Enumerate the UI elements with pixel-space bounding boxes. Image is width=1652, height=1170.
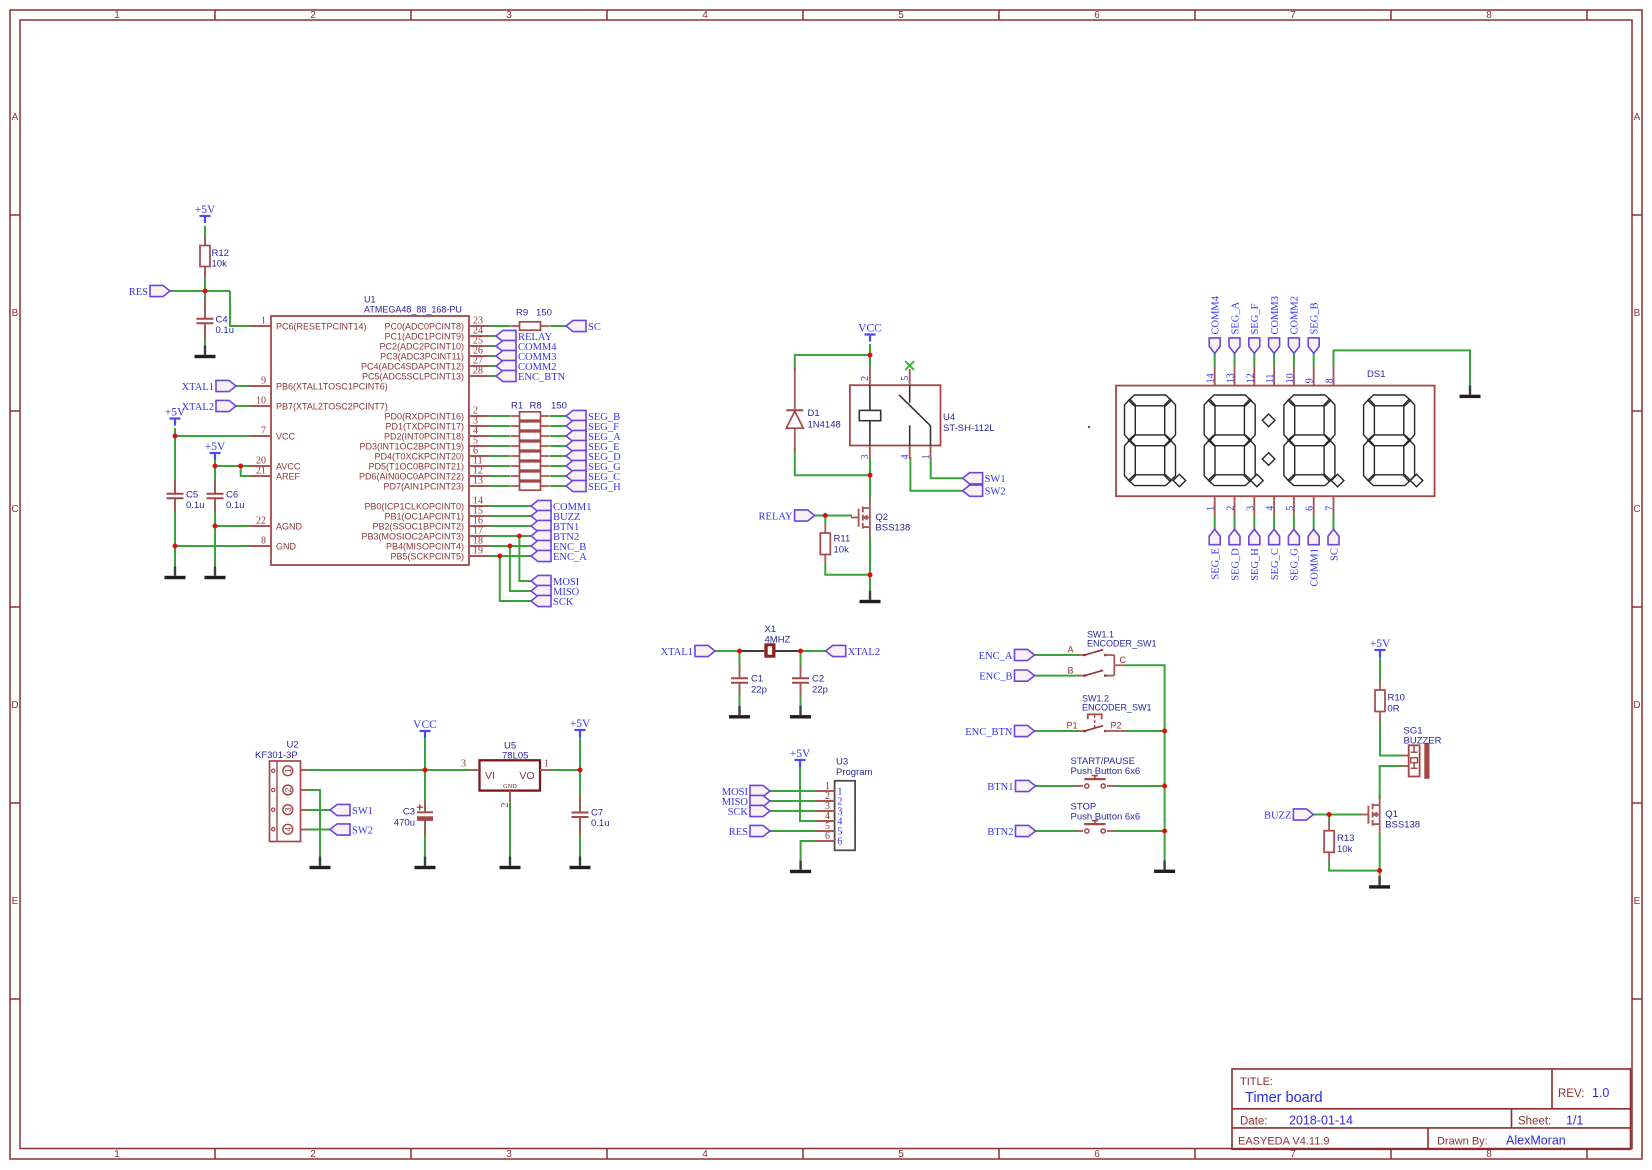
- DS1 dp1 diamond: [1173, 474, 1186, 487]
- wire relay pin 1 to SW1 flag: [931, 457, 963, 478]
- junction BUZZ gate node: [1327, 812, 1332, 817]
- svg-text:2: 2: [310, 10, 316, 21]
- wire MISO flag to U3 pin 2: [770, 800, 816, 802]
- svg-text:SC: SC: [1329, 548, 1340, 561]
- U5 pin 1 VO: [540, 769, 551, 771]
- svg-text:B: B: [1634, 308, 1641, 319]
- svg-text:13: 13: [473, 476, 483, 487]
- svg-text:AVCC: AVCC: [276, 461, 301, 471]
- wire DS1 pin 14 to COMM4 flag: [1214, 353, 1216, 366]
- net flag ENC_B: [531, 540, 551, 551]
- wire pin to R1: [490, 415, 510, 417]
- svg-text:E: E: [1634, 896, 1641, 907]
- svg-text:6: 6: [837, 837, 842, 848]
- U4 pin 3: [869, 446, 871, 460]
- svg-text:PC2(ADC2PCINT10): PC2(ADC2PCINT10): [379, 341, 464, 351]
- svg-text:SEG_B: SEG_B: [1310, 302, 1321, 334]
- svg-text:PC6(RESETPCINT14): PC6(RESETPCINT14): [276, 321, 367, 331]
- wire U3 pin 6 to ground: [801, 841, 816, 861]
- svg-text:Push Button 6x6: Push Button 6x6: [1071, 766, 1141, 777]
- net flag COMM3: [496, 350, 516, 361]
- wire node to D1 top: [795, 355, 870, 370]
- U1 pin 13 PD7(AIN1PCINT23): [469, 485, 490, 487]
- wire MOSI branch: [519, 536, 531, 581]
- DS1 pin 7: [1333, 496, 1335, 516]
- junction source rail node: [1377, 868, 1382, 873]
- net flag ENC_BTN: [496, 370, 516, 381]
- SW1.2 actuator bracket: [1087, 714, 1089, 719]
- svg-text:GND: GND: [276, 541, 297, 551]
- wire DS1 pin 12 to SEG_F flag: [1253, 353, 1255, 366]
- U3 pin 6: [815, 840, 834, 842]
- svg-text:R8: R8: [530, 401, 542, 412]
- power flag VCC (input): [420, 731, 431, 738]
- ground (C7): [570, 857, 591, 870]
- DS1 pin 8: [1333, 366, 1335, 386]
- DS1 pin 10: [1293, 366, 1295, 386]
- svg-text:RES: RES: [129, 287, 148, 298]
- svg-text:GND: GND: [503, 783, 517, 790]
- wire +5V stem (U5): [579, 737, 581, 770]
- net flag SCK (U3): [750, 805, 770, 816]
- svg-text:P2: P2: [1111, 721, 1122, 731]
- wire ENC_BTN flag to SW1.2: [1034, 730, 1079, 732]
- DS1 dp2 diamond: [1251, 474, 1264, 487]
- wire pin to R2: [490, 425, 510, 427]
- wire DS1 pin 1 to SEG_E flag: [1214, 516, 1216, 529]
- DS1 dp3 diamond: [1331, 474, 1344, 487]
- net flag BUZZ: [1293, 809, 1313, 820]
- svg-text:PD3(INT1OC2BPCINT19): PD3(INT1OC2BPCINT19): [359, 441, 464, 451]
- svg-text:R1: R1: [511, 401, 523, 412]
- net flag SC: [566, 320, 586, 331]
- net flag XTAL1 (to pin 9): [216, 380, 236, 391]
- svg-text:150: 150: [551, 401, 567, 412]
- net flag BTN2 (button): [1016, 825, 1036, 836]
- svg-text:U1: U1: [364, 295, 376, 305]
- junction +5V output node: [578, 768, 583, 773]
- wire R2 to SEG_F flag: [550, 425, 566, 427]
- U4 pin 2: [869, 366, 871, 385]
- net flag SEG_H: [566, 480, 586, 491]
- wire XTAL2 to pin 10: [236, 405, 252, 407]
- junction VCC rail: [173, 434, 178, 439]
- svg-text:+5V: +5V: [570, 718, 591, 730]
- svg-text:7: 7: [261, 426, 266, 437]
- DS1 pin 9: [1313, 366, 1315, 386]
- svg-text:BSS138: BSS138: [875, 523, 910, 534]
- svg-text:D: D: [11, 700, 18, 711]
- wire DS1 pin 10 to COMM2 flag: [1293, 353, 1295, 366]
- DS1 colon lower diamond: [1262, 453, 1275, 466]
- svg-text:A: A: [12, 112, 19, 123]
- wire ENC_A flag to SW1.1: [1034, 654, 1079, 656]
- wire +5V to R12: [204, 226, 206, 246]
- svg-text:6: 6: [1305, 506, 1316, 511]
- svg-text:SEG_D: SEG_D: [1230, 548, 1241, 581]
- capacitor C2: [800, 665, 802, 678]
- junction AGND: [213, 524, 218, 529]
- svg-text:3: 3: [1245, 506, 1256, 511]
- svg-text:BUZZER: BUZZER: [1404, 736, 1442, 747]
- svg-text:U4: U4: [943, 412, 955, 423]
- wire DS1 pin8 to ground: [1334, 350, 1471, 385]
- net flag ENC_B (encoder): [1015, 670, 1035, 681]
- U4 pin 4: [909, 446, 911, 460]
- wire pin18 to ENC_B flag: [490, 545, 531, 547]
- resistor R13: [1328, 822, 1330, 831]
- net flag RES: [150, 285, 170, 296]
- svg-text:PD6(AIN0OC0APCINT22): PD6(AIN0OC0APCINT22): [359, 471, 464, 481]
- U4 pin 5 with no-connect X: [909, 369, 911, 385]
- svg-text:ENC_A: ENC_A: [553, 552, 587, 563]
- U1 pin 17 PB3(MOSIOC2APCINT3): [469, 535, 490, 537]
- svg-text:E: E: [12, 896, 19, 907]
- diode D1 1N4148: [794, 368, 796, 411]
- svg-text:EASYEDA V4.11.9: EASYEDA V4.11.9: [1238, 1135, 1330, 1147]
- wire pin to BUZZ flag: [490, 515, 531, 517]
- transistor Q1 BSS138: [1361, 814, 1369, 816]
- svg-text:COMM3: COMM3: [1270, 296, 1281, 335]
- net flag RES (U3): [750, 825, 770, 836]
- svg-text:PD2(INT0PCINT18): PD2(INT0PCINT18): [384, 431, 464, 441]
- DS1 pin 2: [1234, 496, 1236, 516]
- wire bus ENC_BTN to BTN1: [1164, 731, 1166, 786]
- svg-text:78L05: 78L05: [502, 751, 528, 762]
- wire U2 pin2 to ground: [308, 790, 320, 857]
- wire STOP button to bus: [1113, 830, 1165, 832]
- resistor R8: [511, 485, 520, 487]
- U1 pin 24 PC1(ADC1PCINT9): [469, 335, 490, 337]
- U1 pin 1 PC6(RESETPCINT14): [250, 325, 271, 327]
- svg-text:1: 1: [261, 316, 266, 327]
- svg-text:19: 19: [473, 546, 483, 557]
- wire DS1 pin 7 to SC flag: [1333, 516, 1335, 529]
- wire rail to ground: [869, 575, 871, 591]
- svg-text:SW1: SW1: [352, 806, 373, 817]
- junction ENC_B/MISO: [507, 544, 512, 549]
- svg-text:4: 4: [1265, 506, 1276, 511]
- svg-text:U2: U2: [287, 739, 299, 750]
- svg-text:0R: 0R: [1388, 704, 1400, 715]
- svg-text:R10: R10: [1388, 693, 1405, 704]
- svg-text:1: 1: [1206, 506, 1217, 511]
- net flag ENC_BTN (encoder): [1015, 725, 1035, 736]
- svg-text:R13: R13: [1337, 833, 1354, 844]
- svg-text:7: 7: [1325, 506, 1336, 511]
- svg-text:A: A: [1067, 645, 1073, 655]
- svg-text:5: 5: [898, 10, 904, 21]
- resistor R3: [511, 435, 520, 437]
- svg-text:13: 13: [1226, 373, 1237, 383]
- svg-text:SEG_E: SEG_E: [1211, 548, 1222, 580]
- wire DS1 pin 4 to SEG_C flag: [1273, 516, 1275, 529]
- svg-text:VCC: VCC: [858, 323, 882, 335]
- relay U4 ST-SH-112L body: [850, 385, 941, 445]
- wire R9 to SC flag: [550, 325, 566, 327]
- svg-text:C6: C6: [226, 490, 238, 501]
- svg-text:SEG_C: SEG_C: [1270, 548, 1281, 580]
- transistor Q2 BSS138: [851, 517, 859, 519]
- net flag SC (DS1 bottom): [1328, 529, 1339, 545]
- svg-text:AGND: AGND: [276, 521, 303, 531]
- junction AVCC-AREF: [238, 464, 243, 469]
- svg-text:14: 14: [1206, 373, 1217, 383]
- wire U2 pin4 to SW2 flag: [308, 829, 330, 831]
- junction ENC_A/SCK: [497, 554, 502, 559]
- wire C5 rail to ground: [174, 546, 176, 567]
- svg-text:SEG_H: SEG_H: [588, 482, 621, 493]
- svg-text:Date:: Date:: [1240, 1116, 1268, 1128]
- U1 pin 11 PD5(T1OC0BPCINT21): [469, 465, 490, 467]
- svg-text:PD7(AIN1PCINT23): PD7(AIN1PCINT23): [383, 481, 464, 491]
- wire pin to COMM3 flag: [490, 355, 496, 357]
- wire SW1.1 common C to bus: [1125, 665, 1165, 731]
- net flag COMM1 (DS1 bottom): [1308, 529, 1319, 545]
- power flag +5V (U5 out): [575, 730, 586, 737]
- svg-text:C3: C3: [403, 807, 415, 818]
- svg-text:SW2: SW2: [985, 487, 1006, 498]
- svg-text:2: 2: [1226, 506, 1237, 511]
- net flag SEG_A (DS1 top): [1229, 338, 1240, 354]
- net flag RELAY (gate): [795, 510, 815, 521]
- wire C2 node to C2: [800, 651, 802, 673]
- svg-text:U3: U3: [836, 756, 848, 767]
- wire +5V to U3 pin 4: [800, 767, 816, 821]
- wire buzzer pin 2 to Q1 drain: [1380, 766, 1401, 799]
- svg-text:4: 4: [702, 1149, 708, 1160]
- DS1 pin 6: [1313, 496, 1315, 516]
- wire pin to COMM1 flag: [490, 505, 531, 507]
- svg-text:PD0(RXDPCINT16): PD0(RXDPCINT16): [384, 411, 464, 421]
- wire +5V rail down to C5: [174, 436, 176, 493]
- svg-text:D: D: [1633, 700, 1640, 711]
- wire BUZZ node to R13: [1328, 815, 1330, 824]
- wire pin19 to ENC_A flag: [490, 555, 531, 557]
- DS1 pin 14: [1214, 366, 1216, 386]
- svg-text:6: 6: [1094, 1149, 1100, 1160]
- svg-text:C2: C2: [812, 674, 824, 685]
- svg-text:3: 3: [506, 1149, 512, 1160]
- wire R3 to SEG_A flag: [550, 435, 566, 437]
- U1 pin 6 PD4(T0XCKPCINT20): [469, 455, 490, 457]
- svg-text:C4: C4: [216, 315, 228, 326]
- svg-text:2018-01-14: 2018-01-14: [1289, 1114, 1353, 1128]
- DS1 pin 3: [1253, 496, 1255, 516]
- svg-text:1: 1: [283, 768, 293, 773]
- net flag SEG_G: [566, 460, 586, 471]
- svg-text:SW2: SW2: [352, 825, 373, 836]
- net flag SEG_F: [566, 420, 586, 431]
- svg-text:1.0: 1.0: [1592, 1086, 1609, 1100]
- svg-text:D1: D1: [808, 408, 820, 419]
- wire R13 to source rail: [1329, 861, 1380, 871]
- svg-text:B: B: [1067, 665, 1073, 675]
- svg-text:PB6(XTAL1TOSC1PCINT6): PB6(XTAL1TOSC1PCINT6): [276, 381, 388, 391]
- net flag COMM3 (DS1 top): [1269, 338, 1280, 354]
- svg-text:XTAL2: XTAL2: [182, 402, 214, 413]
- resistor R5: [511, 455, 520, 457]
- ground (C1): [729, 706, 750, 719]
- ground (DS1 pin 8): [1460, 385, 1481, 398]
- wire relay pin 4 to SW2 flag: [910, 457, 962, 491]
- svg-text:PB1(OC1APCINT1): PB1(OC1APCINT1): [384, 511, 464, 521]
- svg-text:R9: R9: [516, 308, 528, 319]
- wire R4 to SEG_E flag: [550, 445, 566, 447]
- svg-text:10: 10: [1285, 373, 1296, 383]
- header U3 Program body: [835, 781, 856, 851]
- push button START/PAUSE: [1076, 785, 1083, 787]
- svg-text:C: C: [1120, 655, 1127, 665]
- U1 pin 18 PB4(MISOPCINT4): [469, 545, 490, 547]
- svg-text:22p: 22p: [812, 685, 828, 696]
- ground (C6): [205, 567, 226, 580]
- svg-text:PD4(T0XCKPCINT20): PD4(T0XCKPCINT20): [374, 451, 464, 461]
- svg-text:PD1(TXDPCINT17): PD1(TXDPCINT17): [385, 421, 464, 431]
- wire +5V rail down to C6: [214, 466, 216, 493]
- wire RELAY flag to Q2 gate: [815, 515, 852, 517]
- net flag SW1 (U2): [330, 804, 350, 815]
- svg-text:VCC: VCC: [276, 431, 296, 441]
- svg-text:1N4148: 1N4148: [808, 420, 841, 431]
- net flag SCK: [531, 595, 551, 606]
- U1 pin 21 AREF: [250, 475, 271, 477]
- junction AVCC rail: [213, 464, 218, 469]
- svg-text:COMM4: COMM4: [1211, 295, 1222, 334]
- wire +5V to AVCC pin 20: [215, 459, 252, 466]
- switch SW1.1 encoder section B: [1078, 675, 1085, 677]
- svg-text:7: 7: [1290, 1149, 1296, 1160]
- net flag SEG_B (DS1 top): [1308, 338, 1319, 354]
- wire C6 to AGND: [214, 499, 216, 526]
- svg-text:AREF: AREF: [276, 471, 301, 481]
- wire R8 to SEG_H flag: [550, 485, 566, 487]
- wire C5 to GND rail: [174, 499, 176, 546]
- svg-text:150: 150: [536, 308, 552, 319]
- svg-text:VI: VI: [485, 770, 495, 782]
- wire drain node to Q2: [869, 475, 871, 500]
- svg-text:10k: 10k: [212, 259, 228, 270]
- svg-text:0.1u: 0.1u: [591, 818, 610, 829]
- svg-text:9: 9: [261, 376, 266, 387]
- wire MOSI flag to U3 pin 1: [770, 790, 816, 792]
- power flag +5V (VCC): [170, 419, 181, 426]
- wire DS1 pin 11 to COMM3 flag: [1273, 353, 1275, 366]
- svg-text:12: 12: [1245, 373, 1256, 383]
- net flag XTAL1 (crystal): [695, 645, 715, 656]
- wire R5 to SEG_D flag: [550, 455, 566, 457]
- wire pin to BTN1 flag: [490, 525, 531, 527]
- svg-text:5: 5: [900, 376, 911, 381]
- net flag SEG_D: [566, 450, 586, 461]
- svg-text:10: 10: [256, 396, 266, 407]
- svg-text:1/1: 1/1: [1566, 1114, 1583, 1128]
- power flag +5V (buzzer): [1375, 650, 1386, 657]
- svg-text:SC: SC: [588, 322, 601, 333]
- svg-text:1: 1: [921, 454, 932, 459]
- wire C2 to ground: [800, 685, 802, 706]
- wire START/PAUSE button to bus: [1113, 785, 1165, 787]
- svg-text:TITLE:: TITLE:: [1240, 1076, 1273, 1088]
- wire XTAL1 flag to C1 node: [715, 650, 740, 652]
- svg-text:8: 8: [1486, 1149, 1492, 1160]
- wire Q1 source to rail: [1379, 833, 1381, 871]
- svg-text:DS1: DS1: [1367, 369, 1385, 380]
- svg-text:8: 8: [1325, 378, 1336, 383]
- svg-text:4: 4: [283, 827, 293, 832]
- wire BTN1 flag to button: [1036, 785, 1080, 787]
- U1 pin 5 PD3(INT1OC2BPCINT19): [469, 445, 490, 447]
- svg-text:2: 2: [860, 376, 871, 381]
- svg-text:470u: 470u: [394, 818, 415, 829]
- wire C4 to ground: [204, 324, 206, 346]
- svg-text:ENCODER_SW1: ENCODER_SW1: [1087, 638, 1157, 648]
- wire ENC_B flag to SW1.1: [1034, 675, 1079, 677]
- wire C3 to ground: [424, 821, 426, 857]
- DS1 digit 4: [1364, 395, 1415, 486]
- ground (C5): [165, 567, 186, 580]
- U1 pin 25 PC2(ADC2PCINT10): [469, 345, 490, 347]
- net flag MOSI (U3): [750, 785, 770, 796]
- capacitor C5: [174, 480, 176, 494]
- wire U5 VO to +5V node: [551, 769, 581, 771]
- net flag BTN1: [531, 520, 551, 531]
- junction XTAL2 node: [798, 649, 803, 654]
- svg-text:SCK: SCK: [553, 597, 574, 608]
- wire DS1 pin 9 to SEG_B flag: [1313, 353, 1315, 366]
- U1 pin 9 PB6(XTAL1TOSC1PCINT6): [250, 385, 271, 387]
- net flag SEG_F (DS1 top): [1249, 338, 1260, 354]
- net flag COMM2 (DS1 top): [1288, 338, 1299, 354]
- wire bus BTN2 to ground: [1164, 831, 1166, 860]
- switch SW1.2 encoder button: [1078, 730, 1085, 732]
- U1 pin 15 PB1(OC1APCINT1): [469, 515, 490, 517]
- svg-text:4: 4: [702, 10, 708, 21]
- svg-text:COMM1: COMM1: [1310, 548, 1321, 587]
- ground (U2): [310, 857, 331, 870]
- svg-text:2: 2: [310, 1149, 316, 1160]
- U4 coil: [869, 385, 871, 410]
- svg-text:2: 2: [283, 787, 293, 792]
- wire R7 to SEG_C flag: [550, 475, 566, 477]
- svg-text:PC0(ADC0PCINT8): PC0(ADC0PCINT8): [384, 321, 464, 331]
- power flag +5V (U3): [795, 760, 806, 767]
- wire R6 to SEG_G flag: [550, 465, 566, 467]
- net flag COMM4 (DS1 top): [1209, 338, 1220, 354]
- DS1 dp4 diamond: [1410, 474, 1423, 487]
- svg-text:PD5(T1OC0BPCINT21): PD5(T1OC0BPCINT21): [368, 461, 464, 471]
- svg-text:BTN1: BTN1: [987, 782, 1013, 793]
- ground (U5): [500, 857, 521, 870]
- svg-text:1: 1: [544, 759, 549, 770]
- svg-text:+5V: +5V: [790, 748, 811, 760]
- resistor R7: [511, 475, 520, 477]
- svg-text:SEG_A: SEG_A: [1230, 301, 1241, 334]
- net flag ENC_A: [531, 550, 551, 561]
- wire U2 pin3 to SW1 flag: [308, 809, 330, 811]
- wire C2 node to XTAL2 flag: [801, 650, 826, 652]
- net flag MISO (U3): [750, 795, 770, 806]
- wire pin to R3: [490, 435, 510, 437]
- ground (U3): [790, 861, 811, 874]
- wire DS1 pin 3 to SEG_H flag: [1253, 516, 1255, 529]
- U1 pin 3 PD1(TXDPCINT17): [469, 425, 490, 427]
- wire pin to R5: [490, 455, 510, 457]
- wire +5V to R10: [1379, 657, 1381, 682]
- svg-text:0.1u: 0.1u: [186, 500, 205, 511]
- net flag SEG_C: [566, 470, 586, 481]
- U1 pin 2 PD0(RXDPCINT16): [469, 415, 490, 417]
